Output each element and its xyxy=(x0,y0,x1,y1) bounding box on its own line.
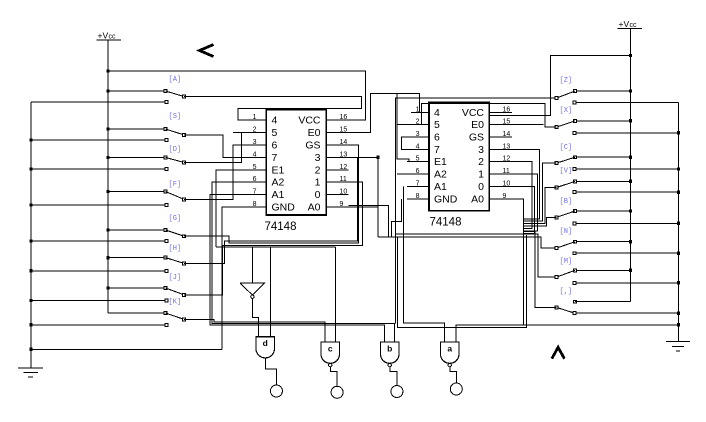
svg-text:11: 11 xyxy=(503,168,510,175)
wire bus under IC2 line 1 xyxy=(396,234,557,277)
gate d xyxy=(256,337,275,358)
wire IC1 pin5 E1 to bus xyxy=(216,170,233,247)
svg-text:[N]: [N] xyxy=(560,228,573,236)
svg-text:15: 15 xyxy=(340,127,348,134)
svg-text:cc: cc xyxy=(109,34,117,41)
wire Z common routing xyxy=(396,98,557,324)
svg-text:1: 1 xyxy=(478,169,484,181)
wire IC1 pin15 E0 to IC2 pin1 xyxy=(349,94,430,133)
wire F common to IC1 pin3 xyxy=(184,145,233,199)
switch [K] left xyxy=(108,312,166,314)
IC U2 pin 13 stub xyxy=(489,148,512,150)
IC U1 pin 5 stub xyxy=(233,169,266,171)
lamp c xyxy=(331,386,343,398)
label caret symbol xyxy=(552,347,565,358)
wire IC1 pin13 branch xyxy=(349,156,379,158)
IC U1 pin 2 stub xyxy=(233,132,266,134)
svg-text:GS: GS xyxy=(469,132,484,144)
svg-text:6: 6 xyxy=(416,168,420,175)
svg-text:7: 7 xyxy=(434,144,440,156)
wire A common to IC1 pin1 xyxy=(184,97,362,121)
IC U1 pin 9 stub xyxy=(326,206,348,208)
IC U1 pin 4 stub xyxy=(233,156,266,158)
wire Vcc to IC1 pin16 xyxy=(108,71,366,120)
IC U1 pin 14 stub xyxy=(326,144,348,146)
wire IC2 pin12 ext down xyxy=(512,162,532,229)
svg-text:[D]: [D] xyxy=(169,146,182,154)
svg-text:[A]: [A] xyxy=(169,76,182,84)
IC U2 pin 14 stub xyxy=(489,136,512,138)
svg-text:15: 15 xyxy=(503,119,511,126)
gate c inputs xyxy=(335,247,337,342)
svg-text:4: 4 xyxy=(272,115,278,127)
svg-text:A1: A1 xyxy=(434,181,447,193)
ground symbol left xyxy=(18,367,43,369)
svg-text:d: d xyxy=(263,338,268,348)
inverter U3 xyxy=(251,247,253,283)
svg-text:4: 4 xyxy=(434,107,440,119)
wire IC2 pin7 down to gate a xyxy=(404,186,445,342)
svg-text:GND: GND xyxy=(434,193,458,205)
svg-text:VCC: VCC xyxy=(462,107,485,119)
IC U1 pin 1 stub xyxy=(238,119,267,121)
switch [G] left xyxy=(106,228,109,231)
svg-text:b: b xyxy=(387,344,392,354)
svg-text:0: 0 xyxy=(478,181,484,193)
svg-text:4: 4 xyxy=(253,151,257,158)
svg-text:3: 3 xyxy=(253,139,257,146)
svg-text:6: 6 xyxy=(253,176,257,183)
wire IC2 pin11 ext down xyxy=(512,174,537,231)
svg-text:[,]: [,] xyxy=(560,288,573,296)
lamp d xyxy=(270,385,282,397)
gate c xyxy=(321,342,340,363)
svg-text:7: 7 xyxy=(253,189,257,196)
svg-text:A2: A2 xyxy=(272,177,285,189)
svg-text:5: 5 xyxy=(253,164,257,171)
wire U loop under IC2 xyxy=(397,235,526,328)
IC U2 pin 8 stub xyxy=(407,198,429,200)
wire S common to IC1 pin4 xyxy=(184,135,233,158)
svg-text:[C]: [C] xyxy=(560,144,573,152)
svg-text:12: 12 xyxy=(503,156,511,163)
svg-text:1: 1 xyxy=(253,114,257,121)
wire IC2 pin5 E1 jog to IC1 E0 xyxy=(397,94,429,162)
svg-text:14: 14 xyxy=(503,131,511,138)
wire ground rail branch bottom left xyxy=(31,348,222,350)
svg-text:E0: E0 xyxy=(308,127,321,139)
svg-text:GND: GND xyxy=(272,202,296,214)
wire X common over IC2 top to pin2 xyxy=(422,104,557,128)
IC U2 pin 5 stub xyxy=(407,161,429,163)
lamp b xyxy=(391,386,403,398)
svg-text:74148: 74148 xyxy=(265,221,297,233)
wire gate d output to lamp xyxy=(265,358,276,385)
IC U2 pin 6 stub xyxy=(397,173,429,175)
IC U2 pin 4 stub xyxy=(407,148,429,150)
svg-text:16: 16 xyxy=(340,114,348,121)
svg-text:A0: A0 xyxy=(308,202,321,214)
IC U2 pin 12 stub xyxy=(489,161,512,163)
svg-text:3: 3 xyxy=(315,152,321,164)
switch [C] right xyxy=(629,156,632,159)
IC U1 pin 13 stub xyxy=(326,156,348,158)
wire K common to braid to gate c xyxy=(184,319,325,342)
wire comma common up to cluster xyxy=(524,232,557,308)
ground rail right xyxy=(575,101,679,103)
wire inverter output to gate d xyxy=(252,298,258,336)
svg-text:E0: E0 xyxy=(471,119,484,131)
svg-text:+V: +V xyxy=(98,31,109,41)
wire G common to IC1 pin12 via bus xyxy=(184,145,358,243)
wire Vcc rail right xyxy=(630,29,632,302)
IC U1 74148 box xyxy=(266,110,326,215)
wire IC2 pin3 pin4 tie xyxy=(401,137,429,149)
svg-text:[V]: [V] xyxy=(560,168,573,176)
svg-text:5: 5 xyxy=(272,127,278,139)
wire V common down right of IC2 xyxy=(524,188,557,224)
svg-text:9: 9 xyxy=(340,201,344,208)
switch [J] left xyxy=(106,286,109,289)
wire J common to IC1 pin11 via bus xyxy=(184,182,363,295)
svg-text:2: 2 xyxy=(478,156,484,168)
wire gate b output to lamp xyxy=(390,367,397,386)
svg-text:12: 12 xyxy=(340,164,348,171)
IC U2 pin 11 stub xyxy=(489,173,512,175)
switch [X] right xyxy=(629,119,632,122)
wire gate a output to lamp xyxy=(450,367,457,383)
svg-text:13: 13 xyxy=(503,143,511,150)
svg-text:0: 0 xyxy=(315,189,321,201)
svg-text:A0: A0 xyxy=(471,193,484,205)
svg-text:[G]: [G] xyxy=(169,215,182,223)
wire IC2 pin13 ext down xyxy=(512,149,540,219)
IC U2 pin 2 stub xyxy=(397,124,429,126)
label < symbol xyxy=(200,45,214,57)
lamp a xyxy=(450,383,462,395)
IC U1 pin 16 stub xyxy=(326,119,348,121)
switch [M] right xyxy=(629,269,632,272)
svg-text:16: 16 xyxy=(503,106,511,113)
switch [V] right xyxy=(629,180,632,183)
wire Vcc rail corner to comma switch xyxy=(575,301,631,303)
wire IC2 pin10 ext down xyxy=(512,186,535,233)
switch [D] left xyxy=(106,156,109,159)
svg-text:[B]: [B] xyxy=(560,198,573,206)
IC U1 pin 8 stub xyxy=(233,206,266,208)
switch [B] right xyxy=(629,209,632,212)
wire IC2 pin15 ext xyxy=(512,124,544,126)
svg-text:2: 2 xyxy=(253,127,257,134)
svg-text:[J]: [J] xyxy=(169,274,182,282)
wire IC1 second output row ext xyxy=(349,205,389,237)
svg-text:74148: 74148 xyxy=(430,217,462,229)
svg-text:VCC: VCC xyxy=(298,115,321,127)
svg-text:A1: A1 xyxy=(272,189,285,201)
IC U2 pin 3 stub xyxy=(407,136,429,138)
ground symbol right xyxy=(666,341,690,343)
svg-text:[Z]: [Z] xyxy=(560,77,573,85)
svg-text:1: 1 xyxy=(416,106,420,113)
svg-text:5: 5 xyxy=(434,119,440,131)
wire IC2 pin9 A0 down to bus xyxy=(489,199,523,325)
wire C common down right of IC2 xyxy=(524,163,557,221)
svg-text:[F]: [F] xyxy=(169,181,182,189)
wire D common to IC1 pin2 xyxy=(184,133,241,163)
switch [,] right xyxy=(575,301,631,303)
IC U2 74148 box xyxy=(429,102,489,210)
IC U1 pin 3 stub xyxy=(233,144,266,146)
wire ground rail right to gate a input xyxy=(456,325,678,342)
switch [S] left xyxy=(106,127,109,130)
svg-text:[H]: [H] xyxy=(169,245,182,253)
svg-text:7: 7 xyxy=(416,180,420,187)
IC U1 pin 10 stub xyxy=(326,194,348,196)
svg-text:cc: cc xyxy=(630,22,638,29)
svg-text:A2: A2 xyxy=(434,169,447,181)
gate d with inputs xyxy=(270,247,272,337)
IC U1 pin 7 stub xyxy=(233,194,266,196)
wire B common down right of IC2 xyxy=(524,217,557,226)
switch [H] left xyxy=(106,256,109,259)
svg-text:[M]: [M] xyxy=(560,258,573,266)
IC U2 pin 10 stub xyxy=(489,185,512,187)
svg-text:8: 8 xyxy=(416,193,420,200)
switch [F] left xyxy=(106,190,109,193)
IC U1 pin 15 stub xyxy=(326,132,348,134)
wire H common to IC1 pin13 via bus xyxy=(184,157,358,263)
svg-text:E1: E1 xyxy=(272,164,285,176)
svg-text:2: 2 xyxy=(416,119,420,126)
svg-text:8: 8 xyxy=(253,201,257,208)
IC U1 pin 11 stub xyxy=(326,181,348,183)
IC U1 pin 6 stub xyxy=(233,181,266,183)
svg-text:E1: E1 xyxy=(434,156,447,168)
svg-text:7: 7 xyxy=(272,152,278,164)
IC U2 pin 16 stub xyxy=(489,111,512,113)
IC U2 pin 15 stub xyxy=(489,124,512,126)
IC U1 pin 12 stub xyxy=(326,169,348,171)
wire bus to gates c d xyxy=(216,246,335,248)
wire Vcc to IC2 pin16 xyxy=(489,56,630,116)
IC U2 pin 7 stub xyxy=(407,185,429,187)
IC U2 pin 1 stub xyxy=(411,111,429,113)
svg-text:6: 6 xyxy=(272,140,278,152)
wire ground to IC1 pin8 GND xyxy=(222,207,233,349)
wire IC1 pin6 A2 to bottom bus to gate b xyxy=(212,182,394,342)
svg-text:c: c xyxy=(328,344,333,354)
svg-text:2: 2 xyxy=(315,164,321,176)
svg-text:3: 3 xyxy=(478,144,484,156)
wire bus under IC2 line 2 xyxy=(378,237,555,248)
svg-text:6: 6 xyxy=(434,132,440,144)
svg-text:10: 10 xyxy=(340,189,348,196)
wire gate c output to lamp xyxy=(330,367,337,387)
switch [A] left xyxy=(106,89,109,92)
wire IC1 pin9 A0 ext xyxy=(349,206,379,208)
svg-text:[K]: [K] xyxy=(169,299,182,307)
wire IC2 pin8 down xyxy=(392,199,402,237)
svg-text:GS: GS xyxy=(305,140,320,152)
gate b xyxy=(381,342,400,363)
switch [Z] right xyxy=(629,89,632,92)
svg-text:a: a xyxy=(447,344,452,354)
switch [N] right xyxy=(629,240,632,243)
svg-text:+V: +V xyxy=(619,19,630,29)
svg-text:[X]: [X] xyxy=(560,107,573,115)
svg-text:[S]: [S] xyxy=(169,113,182,121)
wire Vcc rail left xyxy=(107,40,109,313)
IC U2 pin 9 stub xyxy=(489,198,512,200)
gate a xyxy=(441,342,460,363)
wire IC1 pin7 A1 to bottom bus to gate b xyxy=(210,195,385,343)
svg-text:10: 10 xyxy=(503,180,511,187)
svg-text:1: 1 xyxy=(315,177,321,189)
ground rail left xyxy=(31,101,167,103)
